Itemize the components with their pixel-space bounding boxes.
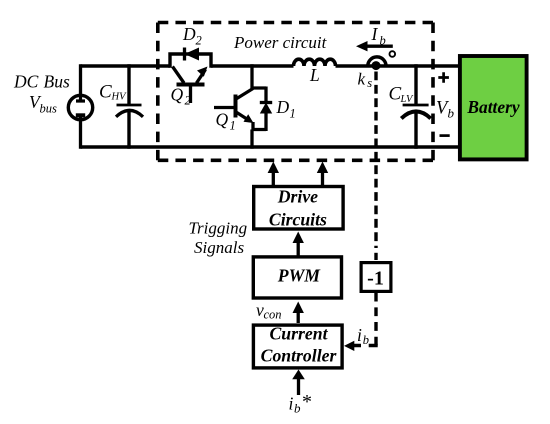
svg-text:L: L (309, 65, 320, 85)
svg-text:LV: LV (400, 94, 414, 105)
diode D1 (260, 103, 272, 114)
inductor L (294, 59, 336, 66)
svg-text:Trigging: Trigging (189, 218, 248, 237)
current sensor ks terminal circle (390, 51, 396, 57)
svg-text:Controller: Controller (261, 345, 338, 365)
svg-text:b: b (448, 106, 455, 121)
current sensor ks dot (372, 61, 381, 70)
diode D2 (185, 48, 200, 61)
wire bottom rail (81, 145, 460, 148)
diode D2 branch wires (170, 54, 211, 68)
svg-text:i: i (289, 394, 294, 414)
transistor Q2 gate lead (189, 86, 192, 103)
svg-text:Current: Current (269, 324, 328, 344)
svg-text:D: D (276, 97, 290, 117)
transistor Q1 bar (234, 95, 238, 118)
dashed power circuit box (158, 23, 433, 161)
svg-text:Q: Q (216, 110, 229, 130)
svg-text:1: 1 (290, 107, 296, 121)
wire top rail middle segment (211, 64, 294, 67)
svg-text:i: i (357, 325, 362, 345)
dashed feedback line below -1 (374, 293, 377, 346)
svg-text:b: b (294, 401, 301, 416)
box -1 (361, 263, 391, 292)
transistor Q2 collector lead (173, 67, 185, 84)
battery box (460, 56, 527, 159)
current sensor ks arc (368, 57, 386, 66)
capacitor C_HV wires (127, 64, 130, 148)
arrow controller to PWM (297, 311, 300, 323)
svg-text:Q: Q (171, 85, 184, 105)
capacitor C_HV curved plate (116, 110, 143, 116)
capacitor C_LV top plate (403, 104, 429, 107)
transistor Q1 gate lead (214, 106, 236, 109)
svg-text:PWM: PWM (277, 265, 322, 285)
PWM box (253, 257, 341, 298)
svg-text:Signals: Signals (194, 238, 244, 257)
svg-text:*: * (302, 391, 312, 413)
voltage source internal plates (76, 96, 85, 103)
svg-text:k: k (358, 70, 366, 89)
wire top rail left segment (81, 64, 171, 67)
drive circuits box (254, 187, 343, 230)
label minus (440, 134, 450, 137)
voltage source Vbus circle (68, 95, 92, 119)
svg-text:b: b (363, 333, 369, 347)
transistor Q1 collector lead (236, 89, 253, 100)
wire voltage source column (79, 64, 82, 148)
label plus (438, 72, 449, 83)
transistor Q1 emitter wire (253, 122, 266, 130)
arrow drive to power box right (321, 171, 324, 186)
transistor Q2 gate bar (177, 83, 205, 87)
node top of Q1 (252, 64, 266, 88)
arrow drive to power box left (272, 171, 275, 186)
svg-text:Power circuit: Power circuit (233, 33, 328, 52)
svg-text:2: 2 (185, 94, 191, 108)
svg-text:con: con (264, 308, 282, 322)
svg-text:Bus: Bus (44, 72, 70, 92)
svg-text:DC: DC (13, 72, 39, 92)
svg-text:1: 1 (230, 119, 236, 133)
svg-text:Battery: Battery (466, 97, 519, 117)
arrow Ib (365, 45, 393, 48)
arrowhead into current controller (344, 341, 354, 351)
svg-text:Circuits: Circuits (269, 210, 327, 230)
svg-text:2: 2 (196, 34, 202, 48)
capacitor C_LV curved plate (401, 111, 430, 118)
dashed feedback line from ks (374, 72, 377, 249)
svg-text:b: b (380, 33, 386, 47)
transistor Q2 emitter lead with arrow (197, 70, 206, 84)
current controller box (253, 325, 342, 368)
capacitor C_LV wires (414, 64, 417, 148)
svg-text:s: s (367, 76, 372, 90)
arrow PWM to drive (297, 240, 300, 256)
svg-text:C: C (99, 82, 112, 103)
wire Q1 bottom stub (250, 130, 253, 149)
wire top rail right segment (336, 64, 460, 67)
svg-text:bus: bus (40, 102, 58, 116)
svg-text:HV: HV (111, 91, 128, 102)
svg-text:-1: -1 (367, 268, 384, 290)
arrow ib* into controller (297, 378, 300, 395)
svg-text:Drive: Drive (277, 187, 318, 207)
svg-text:D: D (182, 24, 196, 44)
svg-text:I: I (371, 24, 379, 44)
transistor Q1 emitter lead with arrow (236, 112, 250, 121)
capacitor C_HV top plate (117, 104, 142, 107)
diode D1 wires (264, 87, 267, 132)
